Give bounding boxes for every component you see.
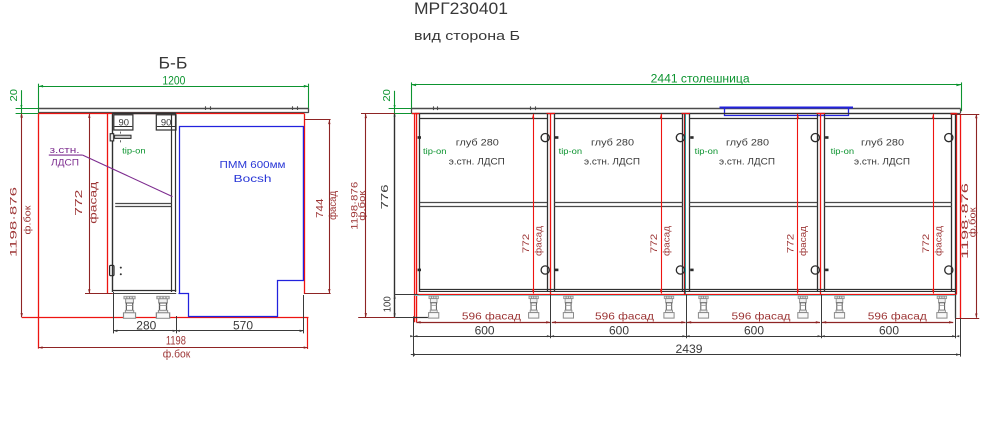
svg-text:90: 90 (119, 117, 130, 127)
left view red extension below floor right (307, 317, 309, 349)
left view dim 744 bottom tick (305, 293, 331, 295)
left view cabinet bottom lines (113, 290, 176, 292)
left view red fasad plane line (107, 114, 109, 294)
right view cabinet side left (419, 114, 421, 292)
svg-text:744: 744 (315, 198, 326, 218)
left view red right side line (304, 114, 306, 294)
right view divider 3 sides (817, 114, 819, 292)
right view shelf lines (420, 202, 547, 204)
svg-text:280: 280 (136, 318, 156, 332)
right view red fasad top segments (412, 113, 420, 115)
svg-text:772: 772 (921, 234, 932, 254)
left view cabinet top line (112, 113, 176, 115)
right view red fasad right line (956, 114, 958, 294)
svg-text:tip-on: tip-on (559, 147, 583, 156)
right view dim 596 lines (416, 322, 550, 324)
right view dim 1198x876 right ticks (951, 114, 980, 116)
svg-text:ф.бок: ф.бок (163, 349, 191, 361)
right view divider 2 sides (682, 114, 684, 292)
svg-text:20: 20 (9, 89, 20, 102)
left view leg 1 (124, 296, 136, 318)
svg-text:э.стн. ЛДСП: э.стн. ЛДСП (719, 156, 775, 166)
hob blue top bar (720, 107, 854, 109)
svg-text:776: 776 (380, 184, 391, 210)
svg-text:ф.бок: ф.бок (357, 191, 367, 221)
svg-text:э.стн. ЛДСП: э.стн. ЛДСП (449, 156, 505, 166)
right view floor line left segment (415, 317, 428, 319)
svg-text:20: 20 (382, 89, 393, 102)
svg-text:э.стн. ЛДСП: э.стн. ЛДСП (854, 156, 910, 166)
right view dim 600 extension lines (413, 316, 415, 356)
left view hinge plate (110, 265, 114, 275)
dishwasher outline (179, 127, 304, 317)
right view red fasad divider line 2 (684, 114, 686, 294)
right view left end panel (394, 114, 396, 318)
svg-text:1198: 1198 (166, 336, 186, 348)
svg-text:tip-on: tip-on (695, 147, 719, 156)
left view tip-on handle bar (115, 135, 131, 138)
left view countertop (39, 108, 309, 110)
left view dim 280 570 line (113, 330, 304, 332)
svg-text:2439: 2439 (676, 342, 703, 356)
right view dim 20 ticks (389, 108, 412, 110)
left view dim 1198x876 side line (21, 114, 23, 318)
right view cabinet top line (415, 113, 956, 115)
svg-text:ЛДСП: ЛДСП (51, 157, 79, 168)
left view back wall leader line (83, 155, 173, 197)
left view leg 2 (156, 296, 169, 318)
right view dim 2441 line (412, 84, 962, 86)
svg-text:600: 600 (879, 323, 899, 337)
teal layer line divider 2 (685, 114, 687, 294)
right view red fasad divider line 1 (550, 114, 552, 294)
right view legs (429, 296, 439, 318)
svg-text:ф.бок: ф.бок (22, 205, 33, 235)
svg-text:э.стн. ЛДСП: э.стн. ЛДСП (584, 156, 640, 166)
left view drawer box 90 first (114, 115, 133, 130)
right view dim 2441 extension right (961, 82, 963, 111)
svg-text:глуб 280: глуб 280 (456, 138, 499, 148)
svg-text:tip-on: tip-on (831, 147, 855, 156)
left view dim 20 line (21, 90, 23, 113)
svg-text:1198·876: 1198·876 (8, 187, 19, 257)
svg-text:фасад: фасад (87, 181, 99, 223)
svg-text:596 фасад: 596 фасад (462, 310, 521, 322)
left view dim 744 top tick (305, 119, 331, 121)
hob blue body (725, 109, 849, 116)
right view dim 100 ticks (394, 294, 419, 296)
svg-text:глуб 280: глуб 280 (861, 138, 904, 148)
right view red end panel edge line (960, 114, 962, 318)
svg-text:ПММ 600мм: ПММ 600мм (220, 160, 286, 171)
svg-text:596 фасад: 596 фасад (732, 310, 791, 322)
svg-text:100: 100 (383, 296, 394, 312)
right view dim 1198x876 left line (365, 114, 367, 318)
right view dim 2439 line (411, 354, 960, 356)
left view cabinet divider right double (171, 114, 173, 293)
svg-text:570: 570 (233, 318, 253, 332)
svg-text:tip-on: tip-on (122, 147, 146, 156)
right view teal bottom layer line (415, 295, 957, 297)
right view hinges lower (541, 266, 549, 274)
left view dim 280 570 extension lines (113, 292, 115, 333)
svg-text:фасад: фасад (534, 226, 545, 256)
right view bottom lines (420, 289, 955, 291)
left view dim 772 line (89, 114, 91, 294)
left view dim 772 bottom tick (85, 293, 113, 295)
svg-text:772: 772 (521, 234, 532, 254)
left view red fasad top line (38, 113, 304, 115)
right view hinges upper (541, 134, 549, 142)
svg-text:772: 772 (74, 189, 85, 216)
left view dim 1200 extension right (308, 84, 310, 112)
left view hinge dots (120, 267, 122, 269)
right view right side double (951, 114, 953, 292)
right view dim 600 line (414, 336, 956, 338)
right view hinge nubs upper (418, 136, 421, 139)
right view dim 20 line (394, 91, 396, 114)
left view countertop joint ticks (205, 106, 207, 110)
left view tip-on handle block (110, 134, 114, 141)
left view dim 1198 line (38, 347, 308, 349)
svg-text:фасад: фасад (327, 191, 339, 220)
svg-text:tip-on: tip-on (423, 147, 447, 156)
svg-text:фасад: фасад (934, 226, 945, 256)
svg-text:1200: 1200 (162, 73, 185, 87)
svg-text:772: 772 (786, 234, 797, 254)
right view interior top lines (420, 118, 547, 120)
svg-text:МРГ230401: МРГ230401 (414, 0, 508, 18)
svg-text:596 фасад: 596 фасад (595, 310, 654, 322)
right view red fasad divider line 3 (820, 114, 822, 294)
svg-text:600: 600 (609, 323, 629, 337)
left view shelf lines (115, 203, 171, 205)
left view dim 1200 line (39, 86, 309, 88)
right view hinge nubs lower (418, 269, 421, 272)
left view dim 20 ticks (16, 108, 39, 110)
right view countertop (412, 108, 961, 110)
left view dim 1200 extension left (38, 84, 40, 114)
svg-text:2441 столешница: 2441 столешница (651, 74, 751, 86)
right view countertop joint ticks (433, 106, 435, 110)
svg-text:Bocsh: Bocsh (234, 174, 272, 185)
right view dim 2441 extension left (411, 82, 413, 113)
right view red fasad bottom line (415, 294, 957, 296)
svg-text:596 фасад: 596 фасад (868, 310, 927, 322)
svg-text:фасад: фасад (661, 226, 672, 256)
svg-text:Б-Б: Б-Б (159, 54, 188, 73)
left view dim 744 line (329, 120, 331, 293)
right view dim 1198x876 right line (976, 114, 978, 318)
right view divider 1 sides (547, 114, 549, 292)
right view dim 772 lines (533, 114, 535, 294)
svg-text:772: 772 (649, 234, 660, 254)
left view drawer box 90 second (156, 115, 176, 130)
svg-text:90: 90 (161, 117, 172, 127)
left view red floor line (22, 317, 309, 319)
left view red left side line (38, 114, 40, 349)
left view cabinet left side (112, 114, 114, 293)
right view dim 1198x876 left ticks (361, 113, 395, 115)
svg-text:ф.бок: ф.бок (968, 207, 978, 237)
left view handle centerline marks (120, 132, 122, 134)
svg-text:600: 600 (475, 323, 495, 337)
svg-text:глуб 280: глуб 280 (726, 138, 769, 148)
svg-text:фасад: фасад (798, 226, 809, 256)
svg-text:600: 600 (744, 323, 764, 337)
right view red fasad left double line (414, 114, 416, 322)
svg-text:вид сторона Б: вид сторона Б (414, 29, 520, 43)
svg-text:глуб 280: глуб 280 (591, 138, 634, 148)
